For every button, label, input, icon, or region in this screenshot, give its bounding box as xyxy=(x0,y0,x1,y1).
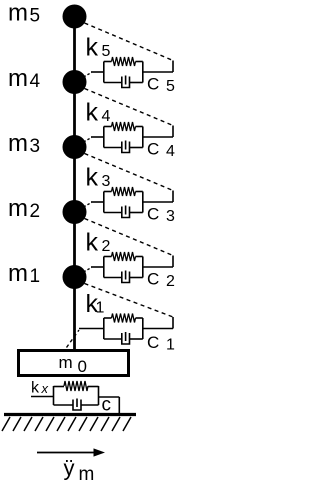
svg-text:m: m xyxy=(8,130,28,157)
svg-text:C: C xyxy=(147,75,159,94)
svg-text:1: 1 xyxy=(30,266,41,287)
svg-text:m: m xyxy=(8,0,28,27)
svg-text:2: 2 xyxy=(166,273,175,290)
svg-text:4: 4 xyxy=(102,108,111,125)
svg-text:5: 5 xyxy=(166,78,175,95)
svg-text:m: m xyxy=(8,260,28,287)
svg-text:c: c xyxy=(102,395,112,416)
svg-text:1: 1 xyxy=(166,337,175,354)
svg-text:ÿ: ÿ xyxy=(64,456,75,481)
svg-text:C: C xyxy=(147,205,159,224)
svg-text:3: 3 xyxy=(166,208,175,225)
svg-text:5: 5 xyxy=(30,6,41,27)
svg-text:k: k xyxy=(86,229,99,257)
svg-text:5: 5 xyxy=(102,43,111,60)
svg-text:0: 0 xyxy=(78,357,87,376)
svg-text:2: 2 xyxy=(30,201,41,222)
svg-text:4: 4 xyxy=(30,71,41,92)
svg-text:2: 2 xyxy=(102,238,111,255)
svg-text:C: C xyxy=(147,140,159,159)
svg-text:C: C xyxy=(147,333,159,352)
svg-text:k: k xyxy=(86,34,99,62)
svg-text:m: m xyxy=(59,353,73,372)
svg-text:C: C xyxy=(147,270,159,289)
svg-text:1: 1 xyxy=(96,300,105,317)
svg-text:3: 3 xyxy=(102,173,111,190)
svg-text:m: m xyxy=(79,464,95,485)
svg-text:k: k xyxy=(31,380,40,397)
svg-text:k: k xyxy=(86,99,99,127)
svg-text:4: 4 xyxy=(166,143,175,160)
svg-text:3: 3 xyxy=(30,136,41,157)
svg-text:m: m xyxy=(8,195,28,222)
svg-text:k: k xyxy=(86,164,99,192)
svg-text:x: x xyxy=(41,381,49,396)
svg-text:m: m xyxy=(8,65,28,92)
